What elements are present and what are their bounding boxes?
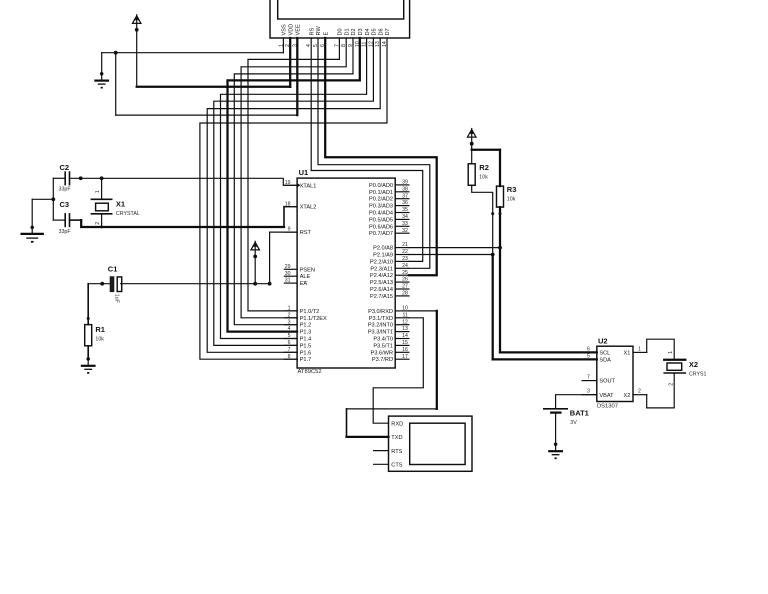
svg-text:SDA: SDA [599,358,611,364]
wire LCD E to U1 P2.4 [325,38,437,275]
op-amp U1 AT89C52 microcontroller [297,168,395,375]
svg-text:3: 3 [587,389,590,395]
wire R1 to ground [87,346,90,361]
svg-text:10: 10 [402,306,408,312]
wire U1 P3.1 to J1 RXD [373,318,423,423]
svg-text:P1.0/T2: P1.0/T2 [300,309,320,315]
svg-text:2: 2 [95,222,101,225]
svg-text:14: 14 [402,333,408,339]
svg-text:P2.5/A13: P2.5/A13 [370,280,393,286]
svg-text:D0: D0 [338,28,344,35]
wire LCD D5 to U1 P1.5 [214,38,374,345]
wire XTAL2 net [70,207,298,227]
svg-text:P2.2/A10: P2.2/A10 [370,259,393,265]
svg-text:P1.5: P1.5 [300,343,312,349]
svg-text:TXD: TXD [391,435,402,441]
wire LCD D3 to U1 P1.3 [228,38,360,332]
svg-text:16: 16 [402,347,408,353]
svg-text:30: 30 [285,271,291,277]
wire U2 X1 to crystal [647,339,675,360]
svg-text:E: E [323,32,329,36]
svg-text:D4: D4 [365,28,371,35]
svg-text:P3.7/RD: P3.7/RD [372,357,393,363]
crystal X1 [91,178,139,228]
svg-text:PSEN: PSEN [300,267,315,273]
svg-text:P1.7: P1.7 [300,357,312,363]
svg-text:R3: R3 [507,185,517,194]
svg-text:32: 32 [402,228,408,234]
svg-text:R2: R2 [479,163,489,172]
resistor R3 [497,185,517,207]
svg-text:P3.1/TXD: P3.1/TXD [369,316,393,322]
ground (R1) [81,357,96,374]
svg-text:17: 17 [402,354,408,360]
svg-text:P1.2: P1.2 [300,323,312,329]
svg-text:1: 1 [288,306,291,312]
svg-text:6: 6 [288,340,291,346]
svg-text:D2: D2 [351,28,357,35]
svg-text:C3: C3 [60,200,70,209]
svg-text:RS: RS [309,27,315,35]
svg-text:D1: D1 [344,28,350,35]
power VCC (pull-ups) [467,129,476,146]
svg-text:VSS: VSS [282,24,288,35]
ground (VSS) [94,72,109,89]
svg-text:P0.7/AD7: P0.7/AD7 [369,231,393,237]
svg-text:37: 37 [402,193,408,199]
svg-text:P0.5/AD5: P0.5/AD5 [369,217,393,223]
svg-text:P2.1/A9: P2.1/A9 [373,253,393,259]
wire LCD VEE [296,38,298,115]
svg-text:P2.3/A11: P2.3/A11 [370,266,393,272]
svg-text:XTAL1: XTAL1 [300,183,317,189]
svg-text:7: 7 [288,347,291,353]
svg-text:D7: D7 [385,28,391,35]
svg-text:35: 35 [402,207,408,213]
svg-text:X2: X2 [689,360,698,369]
svg-text:XTAL2: XTAL2 [300,205,317,211]
svg-text:X1: X1 [624,351,631,357]
svg-text:3: 3 [288,319,291,325]
svg-text:D6: D6 [378,28,384,35]
U1 left pins [284,180,327,363]
svg-text:CTS: CTS [391,463,402,469]
svg-text:10k: 10k [479,174,488,180]
svg-text:SOUT: SOUT [599,379,615,385]
svg-text:P1.6: P1.6 [300,350,312,356]
crystal X2 [664,351,706,386]
svg-text:U2: U2 [598,336,608,345]
svg-text:VEE: VEE [296,24,302,35]
svg-text:2: 2 [288,312,291,318]
svg-text:1uF: 1uF [114,294,120,304]
svg-text:P3.4/T0: P3.4/T0 [373,337,393,343]
svg-text:R1: R1 [95,325,105,334]
svg-text:31: 31 [285,278,291,284]
svg-text:P0.6/AD6: P0.6/AD6 [369,224,393,230]
svg-text:4: 4 [288,326,291,332]
wire VSS branch / VEE ground net [116,53,298,115]
wire R3 lower lead / SCL column [499,207,502,352]
wire U1 P2.0 SCL [409,246,597,353]
U2 left pins [582,346,615,398]
svg-text:13: 13 [402,326,408,332]
svg-text:X1: X1 [116,199,125,208]
svg-text:10k: 10k [507,196,516,202]
resistor R1 [85,325,105,346]
svg-text:39: 39 [402,180,408,186]
svg-text:P0.0/AD0: P0.0/AD0 [369,183,393,189]
svg-text:34: 34 [402,214,408,220]
svg-text:3V: 3V [570,420,577,426]
svg-text:38: 38 [402,186,408,192]
wire LCD D6 to U1 P1.6 [207,38,380,352]
wire LCD D4 to U1 P1.4 [221,38,367,339]
wire U2 X2 to crystal [647,373,675,408]
wire VCC to R2/R3 [472,144,500,187]
wire C2/C3 left leg [32,178,55,226]
svg-text:P2.4/A12: P2.4/A12 [370,273,393,279]
wire LCD RW to U1 P2.3 [318,38,430,268]
svg-text:15: 15 [402,340,408,346]
svg-text:33pF: 33pF [59,229,72,235]
wire RST net [88,232,297,286]
U2 right pins [624,346,647,398]
svg-text:VDD: VDD [288,24,294,36]
svg-text:21: 21 [402,242,408,248]
svg-text:27: 27 [402,284,408,290]
wire LCD VDD to power [137,30,291,87]
svg-text:28: 28 [402,291,408,297]
svg-text:P3.6/WR: P3.6/WR [371,350,393,356]
svg-text:25: 25 [402,270,408,276]
svg-text:23: 23 [402,256,408,262]
svg-text:U1: U1 [299,168,309,177]
svg-text:RXD: RXD [391,421,403,427]
wire LCD D7 to U1 P1.7 [200,38,387,359]
svg-text:RW: RW [316,26,322,36]
svg-text:26: 26 [402,277,408,283]
ground (BAT1) [548,443,563,460]
capacitor C3 [53,200,71,235]
svg-text:33: 33 [402,221,408,227]
svg-text:D3: D3 [358,28,364,35]
svg-text:5: 5 [587,353,590,359]
svg-text:C1: C1 [108,265,118,274]
svg-text:P1.4: P1.4 [300,337,312,343]
power VCC (top left) [132,15,141,32]
svg-text:P2.6/A14: P2.6/A14 [370,287,393,293]
svg-text:DS1307: DS1307 [597,403,618,409]
svg-text:8: 8 [288,354,291,360]
svg-text:P2.7/A15: P2.7/A15 [370,294,393,300]
svg-text:CRYS1: CRYS1 [689,372,707,378]
wire LCD D1 to U1 P1.1 [241,38,346,318]
svg-text:SCL: SCL [599,351,610,357]
wire LCD VSS to ground [102,38,284,73]
svg-text:P1.1/T2EX: P1.1/T2EX [300,316,327,322]
svg-text:29: 29 [285,264,291,270]
svg-text:2: 2 [669,383,675,386]
svg-text:P0.2/AD2: P0.2/AD2 [369,197,393,203]
svg-text:RTS: RTS [391,449,402,455]
svg-text:24: 24 [402,263,408,269]
U1 right pins [368,180,409,364]
svg-text:1: 1 [638,346,641,352]
svg-text:CRYSTAL: CRYSTAL [116,211,140,217]
svg-text:P0.1/AD1: P0.1/AD1 [369,190,393,196]
svg-text:P3.5/T1: P3.5/T1 [373,343,393,349]
svg-text:RST: RST [300,230,312,236]
wire U1 P2.1 SDA [409,253,597,360]
svg-text:EA: EA [300,281,308,287]
wire U2 VBAT to battery [556,395,597,409]
capacitor C2 [53,163,71,193]
wire LCD RS to U1 P2.2 [311,38,423,261]
svg-text:X2: X2 [624,393,631,399]
ground (C2/C3) [21,226,44,243]
wire R2 lower lead to SDA column [472,185,495,254]
svg-text:1: 1 [668,351,674,354]
svg-text:BAT1: BAT1 [570,408,589,417]
svg-text:36: 36 [402,200,408,206]
svg-text:6: 6 [587,346,590,352]
svg-text:5: 5 [288,333,291,339]
svg-text:AT89C52: AT89C52 [298,369,322,375]
wire LCD D2 to U1 P1.2 [234,38,353,325]
op-amp U2 DS1307 RTC [597,336,633,409]
svg-text:22: 22 [402,249,408,255]
svg-text:33pF: 33pF [59,187,72,193]
wire U1 P3.0 to J1 TXD [347,311,437,437]
svg-text:P0.4/AD4: P0.4/AD4 [369,211,393,217]
svg-text:2: 2 [638,389,641,395]
power VCC (RST) [251,241,260,283]
svg-text:P3.2/INT0: P3.2/INT0 [368,323,393,329]
svg-text:ALE: ALE [300,274,311,280]
svg-text:P2.0/A8: P2.0/A8 [373,246,393,252]
connector J1 serial [374,416,472,471]
svg-text:P0.3/AD3: P0.3/AD3 [369,204,393,210]
LCD display LCD1 [270,0,410,47]
wire XTAL1 net [70,176,298,185]
svg-text:D5: D5 [372,28,378,35]
svg-text:C2: C2 [60,163,70,172]
wire RST to R1 [87,284,90,325]
svg-text:10k: 10k [95,337,104,343]
svg-text:11: 11 [403,312,408,318]
battery BAT1 [544,408,589,443]
resistor R2 [468,163,489,185]
svg-text:P3.3/INT1: P3.3/INT1 [368,330,393,336]
svg-text:1: 1 [95,190,101,193]
svg-text:P1.3: P1.3 [300,330,312,336]
U1 XTAL1 pin marker [297,183,300,187]
svg-text:VBAT: VBAT [599,393,614,399]
svg-text:12: 12 [402,319,408,325]
wire LCD D0 to U1 P1.0 [248,38,339,311]
svg-text:P3.0/RXD: P3.0/RXD [368,309,393,315]
capacitor C1 [108,265,122,304]
svg-text:7: 7 [587,375,590,381]
